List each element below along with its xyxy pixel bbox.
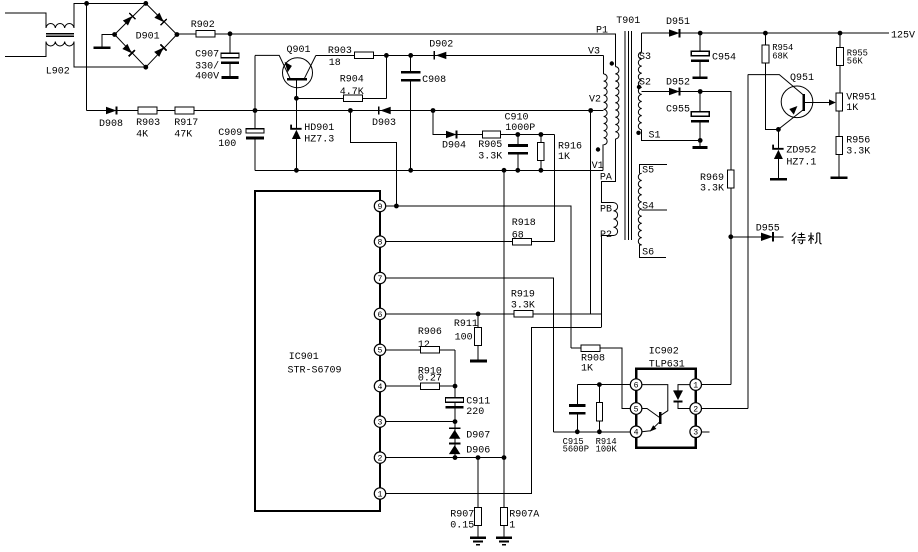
- svg-text:0.15: 0.15: [450, 521, 474, 532]
- node Q901 base: [294, 96, 299, 101]
- pin 8 IC901: [374, 236, 385, 247]
- capacitor C911: [446, 398, 464, 402]
- wire AC input top: [5, 13, 46, 28]
- resistor R903 18: [354, 52, 373, 59]
- svg-text:3: 3: [693, 429, 698, 438]
- wire Q901 emitter drop: [254, 55, 256, 110]
- node rail R907A riser: [502, 168, 507, 173]
- diode D908: [106, 107, 117, 114]
- wire pin6 row: [386, 313, 601, 315]
- wire D908 row: [87, 110, 591, 112]
- node pin9: [394, 204, 399, 209]
- resistor R917: [175, 107, 194, 114]
- svg-text:R916: R916: [558, 141, 582, 152]
- svg-text:3.3K: 3.3K: [846, 146, 870, 157]
- wire Q901 collector rail: [316, 54, 604, 56]
- bridge rectifier D901: [115, 3, 177, 67]
- pin 4 IC902: [630, 426, 642, 438]
- wire R916 row to R918 drop: [541, 134, 555, 136]
- resistor R954: [764, 33, 766, 45]
- svg-text:R903: R903: [136, 118, 160, 129]
- wire pin4 row opto: [554, 431, 631, 433]
- svg-text:ZD952: ZD952: [786, 146, 816, 157]
- wire S5 stub: [640, 164, 668, 173]
- svg-text:R956: R956: [846, 135, 870, 146]
- phototransistor IC902: [642, 385, 668, 432]
- svg-text:S6: S6: [642, 248, 654, 259]
- svg-text:R904: R904: [340, 75, 364, 86]
- pin 4 IC901: [374, 380, 385, 391]
- wire S1 lead: [642, 130, 701, 141]
- capacitor C907: [229, 34, 231, 53]
- node C907 junction: [228, 31, 233, 36]
- svg-text:4: 4: [378, 383, 383, 392]
- svg-text:3.3K: 3.3K: [478, 151, 502, 162]
- node R914 bottom: [597, 429, 602, 434]
- resistor R902: [196, 31, 215, 38]
- svg-text:9: 9: [378, 203, 383, 212]
- zener ZD952: [777, 129, 779, 148]
- resistor R903b 4K: [138, 107, 157, 114]
- svg-text:4K: 4K: [136, 130, 148, 141]
- svg-text:4: 4: [634, 429, 639, 438]
- node R911 top: [476, 312, 481, 317]
- resistor R955: [839, 33, 841, 48]
- svg-text:VR951: VR951: [846, 92, 876, 103]
- diode D906: [449, 443, 461, 445]
- svg-text:5: 5: [634, 405, 639, 414]
- pin 5 IC902: [630, 403, 642, 415]
- node D906 bottom: [453, 455, 458, 460]
- ground R907: [470, 537, 486, 539]
- wire pin7 row: [386, 278, 554, 432]
- svg-text:V3: V3: [588, 47, 600, 58]
- resistor R910: [421, 383, 440, 390]
- svg-text:3.3K: 3.3K: [700, 184, 724, 195]
- wire S6 lead: [640, 245, 666, 258]
- svg-text:D951: D951: [666, 17, 690, 28]
- node C908 top: [408, 53, 413, 58]
- svg-text:S5: S5: [642, 166, 654, 177]
- svg-text:6: 6: [634, 382, 639, 391]
- svg-text:2: 2: [378, 455, 383, 464]
- transformer T901 winding V3-V1: [604, 74, 608, 145]
- wire pin5 row: [386, 349, 455, 351]
- wire S3 lead: [641, 33, 643, 52]
- node V1 polarity dot: [596, 147, 600, 151]
- pin 9 IC901: [374, 200, 385, 211]
- node Q901 emitter / C909: [253, 108, 258, 113]
- svg-text:1K: 1K: [581, 364, 593, 375]
- wire V3 drop: [603, 55, 605, 74]
- svg-text:68: 68: [512, 230, 524, 241]
- capacitor C955: [699, 92, 701, 112]
- svg-text:5600P: 5600P: [563, 445, 589, 455]
- ground C954 bar: [693, 76, 708, 79]
- wire opto pin2 lead: [702, 408, 748, 410]
- wire Q951 collector to opto pin2: [747, 75, 749, 409]
- svg-text:4.7K: 4.7K: [340, 87, 364, 98]
- svg-text:3.3K: 3.3K: [511, 301, 535, 312]
- pin 5 IC901: [374, 344, 385, 355]
- node AC top junction: [84, 1, 89, 6]
- svg-text:D903: D903: [372, 118, 396, 129]
- svg-text:R903: R903: [328, 46, 352, 57]
- svg-text:2: 2: [693, 405, 698, 414]
- node bridge top: [143, 1, 148, 6]
- svg-text:S1: S1: [649, 131, 661, 142]
- zener HD901: [295, 98, 297, 128]
- node R916 bottom: [539, 168, 544, 173]
- ground R956: [831, 176, 848, 179]
- svg-text:100: 100: [218, 139, 236, 150]
- ground S1 bar: [699, 140, 701, 146]
- svg-text:HZ7.3: HZ7.3: [304, 135, 334, 146]
- node C910 top: [515, 132, 520, 137]
- node R907A top: [502, 455, 507, 460]
- svg-text:V2: V2: [589, 95, 601, 106]
- svg-text:100K: 100K: [596, 445, 618, 455]
- svg-text:18: 18: [329, 58, 341, 69]
- wire ground rail: [255, 169, 603, 171]
- node D955 branch: [728, 234, 733, 239]
- svg-text:PB: PB: [600, 205, 612, 216]
- svg-text:R969: R969: [700, 173, 724, 184]
- svg-text:L902: L902: [46, 67, 70, 78]
- svg-text:1: 1: [509, 521, 515, 532]
- node D951 out: [698, 31, 703, 36]
- node S1/C955: [698, 138, 703, 143]
- node C908 bottom: [408, 168, 413, 173]
- svg-text:400V: 400V: [195, 71, 219, 82]
- svg-text:1K: 1K: [846, 103, 858, 114]
- svg-text:125V: 125V: [891, 31, 915, 42]
- diode D951: [669, 29, 680, 36]
- wire R906 drop: [454, 350, 456, 458]
- resistor R914: [598, 385, 600, 403]
- wire pin9 row: [386, 206, 571, 348]
- transformer T901 winding S3-S1: [638, 52, 641, 130]
- node bridge right: [175, 32, 180, 37]
- resistor R916: [540, 135, 542, 143]
- op-amp U IC902 TLP631 box: [636, 369, 696, 448]
- wire pin6 row opto: [577, 384, 630, 386]
- svg-text:C911: C911: [466, 397, 490, 408]
- resistor R904: [344, 95, 363, 102]
- svg-text:R918: R918: [512, 218, 536, 229]
- node R955 top: [838, 31, 843, 36]
- wire +310V rail: [177, 34, 615, 67]
- svg-text:R905: R905: [478, 140, 502, 151]
- transformer T901 winding S5-S6: [638, 173, 641, 244]
- node P1 polarity dot: [610, 61, 614, 65]
- svg-text:IC902: IC902: [649, 347, 679, 358]
- wire pin9 to R908: [571, 347, 581, 349]
- wire pin4 row: [386, 385, 455, 387]
- svg-text:D907: D907: [466, 431, 490, 442]
- wire V1 lead: [602, 145, 605, 171]
- ground ZD952: [770, 178, 787, 181]
- svg-text:PA: PA: [600, 173, 612, 184]
- wire V2 sense: [590, 111, 592, 314]
- svg-text:R917: R917: [174, 118, 198, 129]
- node pin4: [453, 384, 458, 389]
- svg-text:C908: C908: [422, 75, 446, 86]
- svg-text:220: 220: [466, 407, 484, 418]
- svg-text:HD901: HD901: [304, 123, 334, 134]
- capacitor C910: [517, 135, 519, 145]
- resistor R907: [477, 458, 479, 508]
- svg-text:R906: R906: [418, 327, 442, 338]
- wire rail to R907A: [503, 170, 505, 457]
- wire D951 row / 125V rail: [642, 32, 889, 34]
- wire P2 lead: [601, 236, 613, 328]
- svg-text:D908: D908: [99, 119, 123, 130]
- wire S4 tap: [642, 209, 667, 211]
- capacitor C909: [254, 111, 256, 129]
- svg-text:D906: D906: [466, 446, 490, 457]
- node R907 top: [476, 455, 481, 460]
- svg-text:7: 7: [378, 275, 383, 284]
- node S1 polarity dot: [636, 131, 640, 135]
- svg-text:R911: R911: [454, 319, 478, 330]
- pin 2 IC902: [690, 403, 702, 415]
- svg-text:P2: P2: [600, 230, 612, 241]
- svg-text:Q951: Q951: [790, 73, 814, 84]
- svg-text:100: 100: [455, 333, 473, 344]
- pin 3 IC901: [374, 416, 385, 427]
- resistor R911: [477, 314, 479, 328]
- svg-text:S3: S3: [639, 52, 651, 63]
- svg-text:1000P: 1000P: [505, 123, 535, 134]
- pin 6 IC901: [374, 308, 385, 319]
- wire AC input bottom: [5, 42, 46, 57]
- node ZD952 top: [776, 127, 781, 132]
- wire pin2 row: [386, 457, 504, 459]
- svg-text:0.27: 0.27: [418, 374, 442, 385]
- svg-text:S4: S4: [642, 202, 654, 213]
- diode D903: [378, 106, 380, 114]
- svg-text:6: 6: [378, 311, 383, 320]
- resistor R918: [512, 238, 531, 245]
- resistor R969: [727, 170, 734, 188]
- svg-text:C955: C955: [666, 105, 690, 116]
- svg-text:IC901: IC901: [289, 352, 319, 363]
- svg-text:HZ7.1: HZ7.1: [786, 157, 816, 168]
- capacitor C915: [576, 385, 578, 405]
- node C910 bottom: [515, 168, 520, 173]
- svg-text:56K: 56K: [847, 56, 864, 66]
- wire S2 tap D952 row: [642, 92, 731, 171]
- wire opto pin1 riser: [702, 384, 731, 386]
- diode D952: [669, 88, 680, 95]
- capacitor C908: [410, 55, 412, 71]
- node HD901 bottom: [294, 168, 299, 173]
- resistor R919: [514, 311, 533, 318]
- node bridge left: [112, 32, 117, 37]
- resistor R956: [836, 137, 843, 155]
- resistor R907A: [503, 458, 505, 508]
- wire pin3 row: [386, 421, 455, 423]
- wire V2 tap: [591, 110, 604, 112]
- svg-text:C909: C909: [218, 128, 242, 139]
- label standby 待机: [792, 233, 822, 245]
- diode D907: [449, 427, 461, 429]
- pin 2 IC901: [374, 452, 385, 463]
- diode D904: [446, 131, 457, 138]
- transistor Q951: [748, 75, 813, 129]
- potentiometer VR951: [836, 93, 843, 111]
- svg-text:12: 12: [418, 340, 430, 351]
- svg-text:STR-S6709: STR-S6709: [288, 366, 342, 377]
- svg-text:V1: V1: [592, 161, 604, 172]
- wire L902 top to rail: [74, 3, 146, 28]
- svg-text:Q901: Q901: [287, 45, 311, 56]
- resistor R906: [421, 347, 440, 354]
- capacitor C954: [699, 33, 701, 51]
- node pin3: [453, 419, 458, 424]
- wire D955 row: [731, 236, 784, 238]
- node R904 riser: [384, 53, 389, 58]
- wire PA lead: [601, 139, 615, 203]
- node D903 left: [348, 108, 353, 113]
- ground C907: [222, 76, 239, 79]
- transformer T901 core: [624, 31, 626, 240]
- wire pin3 stub IC902: [702, 431, 710, 433]
- svg-text:3: 3: [378, 419, 383, 428]
- svg-text:D904: D904: [442, 141, 466, 152]
- wire L902 bottom to bridge: [74, 42, 146, 68]
- svg-text:R907: R907: [450, 510, 474, 521]
- pin 1 IC901: [374, 488, 385, 499]
- resistor R905: [483, 131, 501, 138]
- node D952 out: [698, 89, 703, 94]
- svg-text:1K: 1K: [558, 152, 570, 163]
- LED IC902: [673, 385, 690, 409]
- wire D904 row: [433, 111, 541, 135]
- svg-text:T901: T901: [616, 16, 640, 27]
- diode D955: [761, 233, 773, 241]
- pin 6 IC902: [630, 379, 642, 391]
- node R954 top: [763, 31, 768, 36]
- node S2 polarity dot: [637, 85, 641, 89]
- wire pin9 link: [350, 111, 396, 207]
- transformer T901 winding P1-PA: [615, 67, 619, 139]
- svg-text:68K: 68K: [772, 51, 789, 61]
- svg-text:C907: C907: [195, 50, 219, 61]
- transistor Q901: [255, 55, 316, 98]
- transformer T901 winding PB-P2: [614, 203, 618, 236]
- wire AC to D908 branch: [86, 3, 88, 110]
- ground bridge: [102, 35, 115, 47]
- node V2: [588, 108, 593, 113]
- wire pin1 row: [386, 327, 601, 493]
- svg-text:5: 5: [378, 347, 383, 356]
- svg-text:R907A: R907A: [509, 510, 539, 521]
- node bridge bottom: [143, 65, 148, 70]
- node R916 top: [539, 132, 544, 137]
- node D904 branch: [431, 108, 436, 113]
- node R914 top: [597, 382, 602, 387]
- wire R904 row: [296, 97, 386, 99]
- diode D902: [433, 51, 435, 59]
- wire pin8 row: [386, 241, 555, 243]
- svg-text:D901: D901: [136, 31, 160, 42]
- resistor R908: [581, 345, 600, 352]
- svg-text:R902: R902: [191, 20, 215, 31]
- transformer L902: [46, 24, 74, 46]
- svg-text:1: 1: [693, 382, 698, 391]
- svg-text:D955: D955: [756, 223, 780, 234]
- svg-text:R919: R919: [511, 289, 535, 300]
- op-amp U IC901 STR-S6709 box: [255, 191, 380, 511]
- pin 7 IC901: [374, 272, 385, 283]
- svg-text:D902: D902: [429, 40, 453, 51]
- ground R911: [470, 360, 487, 363]
- svg-text:C954: C954: [712, 53, 736, 64]
- svg-text:1: 1: [378, 490, 383, 499]
- svg-text:8: 8: [378, 239, 383, 248]
- wiper arrow VR951: [805, 102, 830, 104]
- ground R907A: [496, 537, 512, 539]
- svg-text:TLP631: TLP631: [649, 359, 685, 370]
- svg-text:P1: P1: [596, 26, 608, 37]
- node C915 bottom: [575, 429, 580, 434]
- svg-text:D952: D952: [666, 78, 690, 89]
- svg-text:S2: S2: [639, 78, 651, 89]
- svg-text:C910: C910: [505, 113, 529, 124]
- svg-text:47K: 47K: [174, 130, 192, 141]
- pin 1 IC902: [690, 379, 702, 391]
- pin 3 IC902: [690, 426, 702, 438]
- wire R908 to opto pin5: [600, 348, 630, 408]
